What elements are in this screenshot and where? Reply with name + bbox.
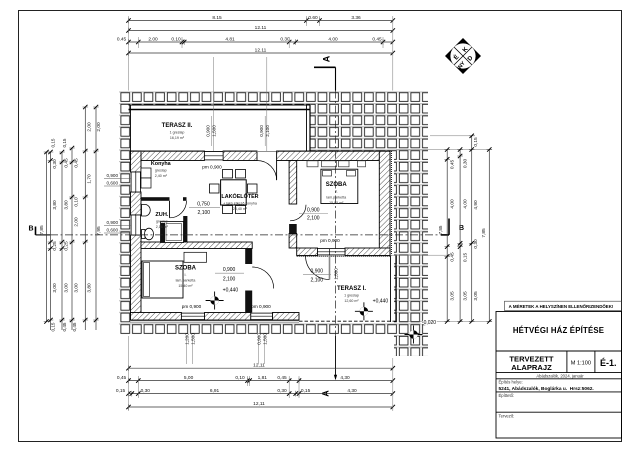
drain symbol 2 [355, 302, 373, 320]
paving grid right column [394, 151, 428, 356]
svg-text:lam.parketta: lam.parketta [326, 195, 346, 199]
nightstands szoba right [307, 161, 366, 167]
bed szoba bottom [142, 252, 207, 298]
svg-text:1,200: 1,200 [184, 333, 189, 345]
svg-text:1 greslap: 1 greslap [344, 294, 359, 298]
wall IW4 lakoeloter/szoba [289, 161, 297, 205]
svg-text:0.30: 0.30 [280, 36, 290, 42]
dim bottom row4 [126, 401, 395, 410]
svg-text:0,10: 0,10 [235, 375, 245, 381]
svg-text:1,500: 1,500 [190, 333, 195, 345]
svg-text:23,40 m²: 23,40 m² [233, 207, 248, 211]
svg-text:6,91: 6,91 [210, 388, 220, 394]
svg-text:12.11: 12.11 [255, 47, 267, 53]
svg-text:5241, Abádszalók, Boglárka u.: 5241, Abádszalók, Boglárka u. Hrsz:5062. [499, 386, 594, 392]
svg-text:1,500: 1,500 [334, 268, 339, 280]
svg-text:Építés helye:: Építés helye: [499, 380, 523, 385]
svg-text:TERASZ II.: TERASZ II. [162, 123, 193, 129]
svg-text:0,45: 0,45 [450, 160, 456, 170]
wall IW2 zuh right [183, 216, 187, 249]
svg-text:A: A [322, 55, 332, 62]
svg-text:12,11: 12,11 [253, 362, 265, 368]
terasz II right edge double line [307, 105, 311, 151]
svg-text:0,900: 0,900 [311, 269, 324, 275]
terrace door/window in divider [318, 249, 346, 255]
svg-text:7,85: 7,85 [481, 228, 487, 238]
paving grid left strip [119, 105, 131, 323]
svg-text:3.36: 3.36 [351, 15, 361, 21]
svg-text:0,30: 0,30 [462, 159, 468, 169]
svg-text:3,05: 3,05 [450, 291, 456, 301]
svg-text:0,25: 0,25 [63, 241, 69, 251]
wall IW3 zuh/szoba bottom [141, 242, 252, 249]
door arc zuh [170, 201, 187, 218]
dim bottom row1 [126, 362, 395, 371]
svg-text:1,70: 1,70 [87, 174, 93, 184]
bottom wall outer face lines [131, 319, 300, 321]
svg-text:2.00: 2.00 [148, 36, 158, 42]
svg-text:0.60: 0.60 [308, 15, 318, 21]
svg-text:TERASZ I.: TERASZ I. [337, 286, 366, 292]
svg-text:0,10: 0,10 [73, 197, 79, 207]
svg-text:8.15: 8.15 [212, 15, 222, 21]
terasz I door arc [306, 256, 330, 280]
svg-text:pm 0,900: pm 0,900 [251, 304, 271, 309]
svg-text:7,85: 7,85 [438, 225, 443, 234]
north compass [445, 38, 481, 74]
door arc szoba lower [252, 267, 274, 289]
svg-text:0,900: 0,900 [206, 125, 211, 137]
svg-text:0.10: 0.10 [171, 36, 181, 42]
svg-text:1,500: 1,500 [262, 333, 267, 345]
shower [161, 222, 184, 243]
svg-text:0,15: 0,15 [301, 388, 311, 394]
insulation dotted line below divider [297, 255, 390, 257]
entry door arc (terasz II to lakoeloter) [257, 161, 277, 181]
svg-text:7,95: 7,95 [96, 226, 102, 236]
svg-text:7,85: 7,85 [39, 225, 45, 235]
svg-text:Konyha: Konyha [151, 161, 172, 167]
svg-text:0,15: 0,15 [462, 253, 468, 263]
svg-text:0,600: 0,600 [107, 228, 119, 233]
wall IW3 stub vertical with door [245, 249, 252, 265]
konyha appliances [141, 168, 151, 188]
svg-text:0,30: 0,30 [141, 388, 151, 394]
svg-text:4,30: 4,30 [340, 375, 350, 381]
bed szoba right [321, 169, 358, 203]
svg-text:4.81: 4.81 [225, 36, 235, 42]
svg-text:2,100: 2,100 [198, 210, 211, 216]
svg-text:Abádszalók, 2024. január: Abádszalók, 2024. január [536, 374, 584, 379]
terasz I bottom dashed edge [299, 320, 396, 322]
svg-text:lam.parketta: lam.parketta [176, 278, 196, 282]
svg-text:16,19 m²: 16,19 m² [170, 136, 185, 140]
svg-text:4,00: 4,00 [462, 199, 468, 209]
svg-text:0,15: 0,15 [51, 138, 56, 147]
svg-text:2,16 m²: 2,16 m² [156, 225, 169, 229]
svg-text:1 greslap: 1 greslap [170, 130, 185, 134]
terasz II top edge double line [129, 105, 311, 110]
svg-text:2,100: 2,100 [307, 216, 320, 222]
svg-text:0,25: 0,25 [52, 241, 58, 251]
dim top row1 [126, 15, 395, 23]
table with chairs [210, 170, 258, 214]
svg-text:3,05: 3,05 [473, 291, 479, 301]
wall: szoba/terasz I divider [297, 248, 318, 256]
svg-text:0.45: 0.45 [372, 36, 382, 42]
svg-text:15,40 m²: 15,40 m² [178, 284, 193, 288]
wall: house top [131, 151, 205, 161]
svg-text:0,600: 0,600 [107, 181, 119, 186]
svg-text:4.00: 4.00 [328, 36, 338, 42]
svg-text:SZOBA: SZOBA [175, 265, 197, 271]
svg-text:pm 0,900: pm 0,900 [320, 238, 340, 243]
svg-text:0.45: 0.45 [117, 36, 127, 42]
svg-text:3,80: 3,80 [87, 283, 93, 293]
svg-text:SZOBA: SZOBA [326, 182, 348, 188]
svg-text:TERVEZETT: TERVEZETT [509, 355, 554, 364]
dim left col5 [93, 105, 102, 330]
svg-text:-0,020: -0,020 [422, 320, 436, 326]
dim left col2 [59, 150, 69, 330]
svg-text:0,45: 0,45 [62, 322, 67, 331]
svg-text:É-1.: É-1. [600, 358, 617, 368]
top extension lines [129, 16, 393, 151]
drain symbol 1 [206, 292, 224, 310]
svg-text:0,900: 0,900 [223, 267, 236, 273]
paving grid upper-right block [311, 105, 429, 152]
svg-text:0,15: 0,15 [51, 322, 56, 331]
insulation dotted line right wall [390, 151, 392, 256]
svg-text:B: B [459, 225, 464, 232]
svg-text:LAKÓELŐTÉR: LAKÓELŐTÉR [221, 192, 258, 200]
svg-text:0,900: 0,900 [256, 333, 261, 345]
svg-text:5,00: 5,00 [184, 375, 194, 381]
svg-text:0,45: 0,45 [73, 158, 79, 168]
insulation dotted line top wall [131, 150, 391, 152]
svg-text:ZUH.: ZUH. [155, 212, 168, 218]
svg-text:3,80: 3,80 [52, 200, 58, 210]
svg-text:1,500: 1,500 [212, 125, 217, 137]
paving grid top band [119, 91, 428, 106]
dim top row4 [126, 47, 395, 55]
svg-text:3,00: 3,00 [73, 283, 79, 293]
door arc szoba right [290, 205, 306, 221]
svg-text:0,30: 0,30 [277, 388, 287, 394]
svg-text:0,45: 0,45 [117, 375, 127, 381]
svg-text:2,100: 2,100 [265, 125, 270, 137]
dim bottom row3 [116, 388, 395, 396]
window W1 konyha top [204, 152, 223, 160]
dim left col3 [69, 146, 79, 330]
svg-text:0,900: 0,900 [307, 208, 320, 214]
terasz II left edge [130, 105, 132, 152]
dim left col1 [48, 150, 58, 330]
svg-text:0,15: 0,15 [116, 388, 126, 394]
svg-text:+ lakó étkező konyha: + lakó étkező konyha [223, 201, 257, 205]
svg-text:4,30: 4,30 [347, 388, 357, 394]
svg-text:greslap: greslap [155, 168, 167, 172]
svg-text:0,45: 0,45 [450, 252, 456, 262]
svg-text:HÉTVÉGI HÁZ ÉPÍTÉSE: HÉTVÉGI HÁZ ÉPÍTÉSE [513, 326, 604, 335]
left window sill lines and labels [104, 179, 131, 234]
svg-text:2,40 m²: 2,40 m² [155, 174, 168, 178]
section line A vertical [314, 67, 337, 380]
svg-text:3,05: 3,05 [462, 291, 468, 301]
svg-text:M 1:100: M 1:100 [571, 361, 591, 367]
wall: house right [379, 151, 390, 256]
dim top row3 [117, 36, 395, 44]
svg-text:II.: II. [335, 190, 338, 194]
title block [496, 312, 622, 439]
washbasin [142, 205, 151, 217]
svg-text:2,00: 2,00 [96, 122, 102, 132]
svg-text:12,60 m²: 12,60 m² [344, 299, 359, 303]
dim right col2 [457, 147, 468, 323]
dim bottom row2 [117, 375, 395, 383]
svg-text:+0,440: +0,440 [223, 288, 239, 294]
svg-text:+0,440: +0,440 [373, 299, 389, 305]
svg-text:2,00: 2,00 [73, 217, 79, 227]
wall: house left [131, 151, 142, 172]
svg-text:15,05 m²: 15,05 m² [329, 201, 344, 205]
svg-text:A MÉRETEK A HELYSZÍNEN ELLENŐR: A MÉRETEK A HELYSZÍNEN ELLENŐRIZENDŐEK! [509, 304, 614, 309]
svg-text:0,900: 0,900 [259, 125, 264, 137]
svg-text:0,30: 0,30 [473, 239, 479, 249]
svg-text:B: B [28, 226, 33, 233]
terasz I right edge double line [391, 256, 397, 323]
dim right col4 [481, 147, 492, 323]
dim left col4 [83, 105, 93, 330]
svg-text:0,900: 0,900 [107, 220, 119, 225]
paving grid bottom band [119, 323, 399, 336]
svg-text:0,30: 0,30 [52, 159, 58, 169]
dim right col3 [469, 134, 479, 324]
svg-text:0,45: 0,45 [63, 158, 69, 168]
svg-text:1,81: 1,81 [258, 375, 268, 381]
dim right col1 [444, 147, 455, 323]
svg-text:ALAPRAJZ: ALAPRAJZ [511, 363, 552, 372]
svg-text:0,15: 0,15 [473, 137, 479, 147]
window W6 lakoeloter bottom [251, 313, 273, 319]
svg-text:0,750: 0,750 [197, 201, 210, 207]
svg-text:0,45: 0,45 [277, 375, 287, 381]
svg-text:4,90: 4,90 [473, 200, 479, 210]
bottom extension lines [129, 336, 393, 411]
section line B horizontal [36, 219, 450, 235]
svg-text:2,100: 2,100 [223, 277, 236, 283]
svg-text:0,45: 0,45 [72, 322, 77, 331]
svg-text:3,00: 3,00 [52, 283, 58, 293]
svg-text:Tervező:: Tervező: [499, 414, 515, 419]
svg-text:pm 0,900: pm 0,900 [182, 304, 202, 309]
wall: house bottom [131, 313, 182, 321]
wall IW1 konyha/zuh [141, 197, 165, 201]
svg-text:Építtető:: Építtető: [499, 393, 515, 398]
title block note [505, 301, 622, 310]
svg-text:greslap: greslap [156, 220, 168, 224]
svg-text:I.: I. [185, 273, 187, 277]
dim top row2 [126, 25, 395, 33]
wc [142, 228, 154, 240]
dim left 7.85 [39, 150, 49, 324]
svg-text:12,11: 12,11 [253, 401, 265, 407]
window W5 szoba bottom [181, 313, 204, 319]
right extension lines [392, 136, 492, 321]
window W3 konyha left [131, 172, 140, 192]
svg-text:0,15: 0,15 [62, 138, 67, 147]
drain symbol 3 [405, 326, 423, 344]
svg-text:0,900: 0,900 [107, 173, 119, 178]
window W4 zuh left [131, 215, 140, 235]
svg-text:4,00: 4,00 [450, 199, 456, 209]
svg-text:12.11: 12.11 [255, 25, 267, 31]
svg-text:2,00: 2,00 [87, 122, 93, 132]
svg-text:pm 0,900: pm 0,900 [202, 165, 222, 170]
svg-text:3,00: 3,00 [63, 283, 69, 293]
svg-text:2,100: 2,100 [311, 278, 324, 284]
svg-text:3,80: 3,80 [63, 200, 69, 210]
